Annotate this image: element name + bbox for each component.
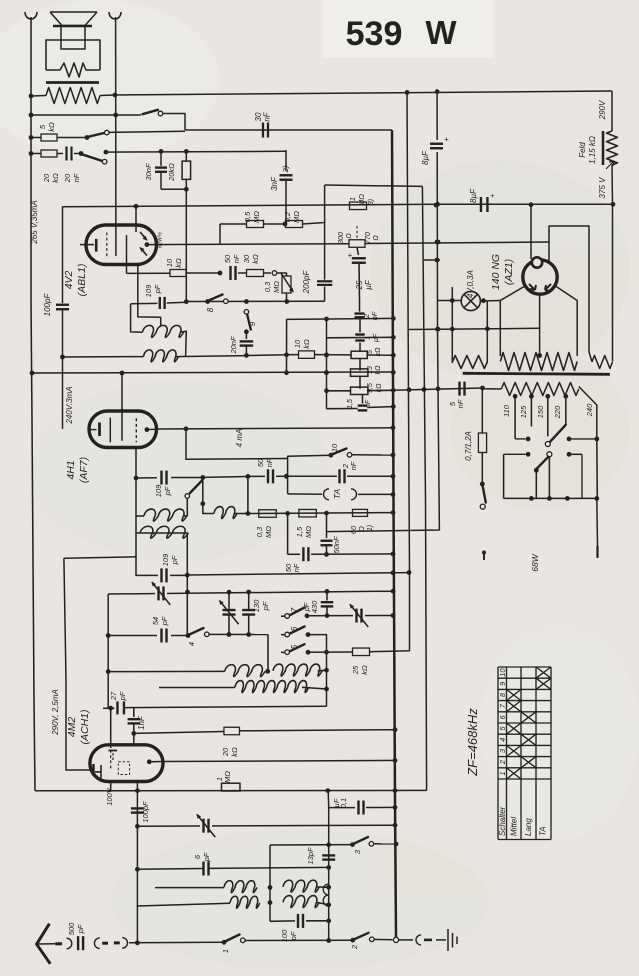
svg-text:50nF: 50nF [332, 536, 341, 554]
svg-text:MΩ: MΩ [292, 211, 301, 223]
svg-text:1): 1) [367, 525, 374, 531]
svg-text:0,5: 0,5 [243, 211, 252, 222]
svg-text:240V:3mA: 240V:3mA [65, 386, 74, 424]
svg-text:220: 220 [553, 405, 562, 419]
svg-text:25: 25 [355, 280, 364, 290]
svg-text:13: 13 [367, 366, 374, 374]
svg-text:4V,0,3A: 4V,0,3A [466, 270, 475, 298]
svg-text:50: 50 [256, 458, 265, 467]
svg-text:539: 539 [346, 15, 403, 53]
svg-text:140 NG: 140 NG [490, 254, 502, 290]
svg-text:290V, 2,5mA: 290V, 2,5mA [51, 689, 60, 736]
svg-text:0,2: 0,2 [283, 211, 292, 222]
svg-text:100pF: 100pF [141, 801, 150, 823]
svg-text:300: 300 [338, 232, 345, 244]
svg-text:Feld: Feld [578, 142, 587, 158]
svg-text:9: 9 [248, 321, 257, 326]
svg-text:pF: pF [261, 601, 270, 611]
svg-text:240: 240 [585, 403, 594, 417]
svg-text:4V2: 4V2 [63, 271, 75, 290]
svg-text:pF: pF [170, 555, 179, 565]
svg-text:8: 8 [206, 307, 215, 312]
svg-text:1: 1 [221, 949, 230, 953]
svg-text:100pF: 100pF [43, 293, 52, 317]
svg-text:kΩ: kΩ [375, 365, 382, 375]
svg-text:nF: nF [263, 111, 272, 121]
svg-text:nF: nF [349, 461, 358, 470]
svg-text:1,5: 1,5 [295, 526, 304, 537]
svg-text:290V: 290V [598, 100, 607, 120]
svg-text:6: 6 [290, 626, 299, 631]
svg-text:5: 5 [290, 644, 299, 649]
svg-text:54: 54 [151, 617, 160, 625]
svg-text:nF: nF [265, 458, 274, 467]
svg-text:MΩ: MΩ [357, 194, 366, 206]
svg-text:375 V: 375 V [598, 177, 607, 199]
svg-text:Ω: Ω [346, 233, 353, 239]
svg-text:265 V,35mA: 265 V,35mA [30, 200, 39, 244]
svg-text:nF: nF [456, 399, 465, 408]
svg-text:3nF: 3nF [270, 176, 279, 191]
svg-text:0,3: 0,3 [263, 281, 272, 292]
svg-text:MΩ: MΩ [223, 771, 232, 783]
svg-text:pF: pF [153, 284, 162, 294]
svg-text:+: + [444, 135, 449, 144]
svg-text:13pF: 13pF [306, 847, 315, 865]
svg-text:µF: µF [332, 798, 341, 807]
svg-text:1: 1 [348, 197, 357, 201]
svg-text:20kΩ: 20kΩ [167, 163, 176, 182]
svg-text:pF: pF [118, 691, 127, 701]
svg-text:20nF: 20nF [229, 336, 238, 355]
svg-text:kΩ: kΩ [375, 347, 382, 357]
svg-text:125: 125 [519, 405, 528, 418]
svg-text:kΩ: kΩ [47, 122, 56, 132]
svg-text:Mittel: Mittel [510, 817, 519, 836]
svg-text:(AZ1): (AZ1) [503, 259, 515, 285]
svg-text:1,5: 1,5 [347, 399, 354, 409]
svg-text:3): 3) [368, 199, 375, 205]
svg-text:µF: µF [373, 333, 380, 342]
svg-text:kΩ: kΩ [174, 258, 183, 268]
svg-text:62W½: 62W½ [157, 232, 164, 248]
svg-text:8µF: 8µF [421, 150, 430, 165]
svg-text:109: 109 [154, 484, 163, 497]
svg-text:(ABL1): (ABL1) [76, 264, 88, 297]
svg-text:30nF: 30nF [144, 163, 153, 181]
svg-text:9,5: 9,5 [367, 383, 374, 393]
svg-text:2: 2 [498, 759, 507, 765]
svg-text:pF: pF [76, 924, 85, 934]
svg-text:4 mA: 4 mA [235, 429, 244, 448]
svg-text:10: 10 [165, 258, 174, 267]
svg-text:109: 109 [161, 553, 170, 566]
svg-text:200pF: 200pF [302, 270, 311, 295]
svg-text:pF: pF [163, 486, 172, 496]
svg-text:kΩ: kΩ [251, 254, 260, 264]
svg-text:nF: nF [232, 254, 241, 263]
svg-text:30: 30 [242, 254, 251, 263]
svg-text:4H1: 4H1 [65, 460, 77, 479]
svg-text:kΩ: kΩ [51, 173, 60, 183]
svg-text:kΩ: kΩ [230, 747, 239, 757]
svg-text:2): 2) [281, 165, 290, 173]
svg-text:pF: pF [160, 616, 169, 626]
svg-text:(ACH1): (ACH1) [79, 709, 91, 744]
svg-text:4: 4 [498, 738, 507, 742]
svg-text:10: 10 [498, 668, 507, 677]
svg-text:500: 500 [67, 922, 76, 935]
svg-text:109: 109 [144, 284, 153, 297]
svg-text:150: 150 [536, 405, 545, 418]
svg-text:µF: µF [364, 279, 373, 290]
svg-text:Lang: Lang [524, 818, 533, 836]
svg-text:1: 1 [498, 771, 507, 775]
svg-text:10: 10 [330, 443, 339, 452]
svg-text:+: + [490, 191, 495, 200]
svg-text:10: 10 [293, 339, 302, 348]
svg-text:0,3: 0,3 [255, 526, 264, 537]
svg-text:1: 1 [365, 336, 372, 340]
svg-text:8µF: 8µF [469, 188, 478, 203]
svg-text:MΩ: MΩ [264, 526, 273, 538]
svg-text:nF: nF [370, 311, 379, 320]
svg-text:20: 20 [63, 173, 72, 183]
svg-text:20: 20 [221, 747, 230, 757]
svg-text:68W: 68W [530, 553, 540, 571]
svg-text:MΩ: MΩ [252, 211, 261, 223]
svg-text:20: 20 [42, 173, 51, 183]
svg-text:TA: TA [332, 489, 342, 500]
svg-text:MΩ: MΩ [304, 526, 313, 538]
svg-text:µF: µF [365, 399, 372, 408]
svg-text:kΩ: kΩ [360, 665, 369, 675]
svg-text:kΩ: kΩ [302, 339, 311, 349]
svg-text:770: 770 [365, 232, 372, 244]
svg-text:TA: TA [539, 826, 548, 836]
svg-text:kΩ: kΩ [376, 383, 383, 393]
svg-text:50: 50 [223, 254, 232, 263]
svg-text:Schalter: Schalter [498, 806, 507, 836]
svg-text:110: 110 [502, 404, 511, 417]
svg-text:(AF7): (AF7) [78, 457, 90, 483]
svg-text:2: 2 [350, 944, 359, 950]
svg-text:Ω: Ω [373, 235, 380, 241]
svg-text:ZF=468kHz: ZF=468kHz [465, 708, 480, 777]
svg-text:25: 25 [351, 665, 360, 675]
svg-text:5: 5 [367, 350, 374, 354]
svg-text:4M2: 4M2 [66, 717, 78, 738]
svg-text:7: 7 [290, 607, 299, 612]
svg-text:nF: nF [292, 563, 301, 572]
svg-text:0,7/1,2A: 0,7/1,2A [464, 431, 473, 461]
svg-text:1,15 kΩ: 1,15 kΩ [588, 136, 597, 164]
svg-text:W: W [425, 14, 457, 51]
svg-text:130: 130 [252, 599, 261, 612]
svg-text:430: 430 [310, 600, 319, 613]
svg-text:nF: nF [72, 173, 81, 182]
svg-text:1nF: 1nF [137, 715, 146, 730]
svg-text:MΩ: MΩ [272, 281, 281, 293]
svg-text:pF: pF [202, 852, 211, 862]
svg-text:+: + [348, 251, 353, 260]
svg-text:4: 4 [187, 642, 196, 646]
svg-text:27: 27 [109, 691, 118, 701]
